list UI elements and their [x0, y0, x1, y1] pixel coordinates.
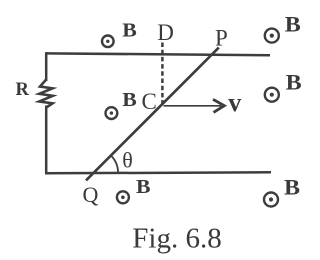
- field symbol B2 circle-dot: [265, 29, 279, 43]
- svg-text:C: C: [142, 89, 157, 114]
- svg-text:P: P: [215, 25, 228, 50]
- field symbol B1 circle-dot: [102, 36, 114, 48]
- svg-text:B: B: [284, 174, 300, 199]
- field symbol B6 circle-dot: [264, 193, 278, 207]
- svg-text:D: D: [157, 20, 174, 45]
- angle arc: [111, 155, 118, 173]
- svg-text:B: B: [285, 11, 301, 36]
- velocity arrow v: [164, 105, 222, 107]
- svg-text:Q: Q: [83, 182, 99, 207]
- svg-text:B: B: [122, 19, 137, 41]
- field symbol B5 circle-dot: [117, 191, 129, 203]
- svg-text:B: B: [286, 70, 302, 95]
- svg-text:R: R: [16, 80, 30, 100]
- wire left bottom segment: [45, 106, 48, 175]
- dashed line D-C: [161, 43, 164, 105]
- field symbol B4 circle-dot: [106, 107, 118, 119]
- field symbol B3 circle-dot: [265, 88, 279, 102]
- svg-text:Fig. 6.8: Fig. 6.8: [132, 222, 221, 254]
- resistor R: [39, 80, 53, 108]
- top rail: [45, 53, 270, 55]
- wire left top segment: [45, 52, 48, 81]
- svg-text:θ: θ: [122, 147, 133, 172]
- svg-text:B: B: [136, 176, 151, 198]
- svg-text:v: v: [228, 88, 241, 117]
- svg-text:B: B: [122, 89, 137, 111]
- bottom rail: [45, 172, 271, 173]
- rod PQ: [86, 48, 219, 181]
